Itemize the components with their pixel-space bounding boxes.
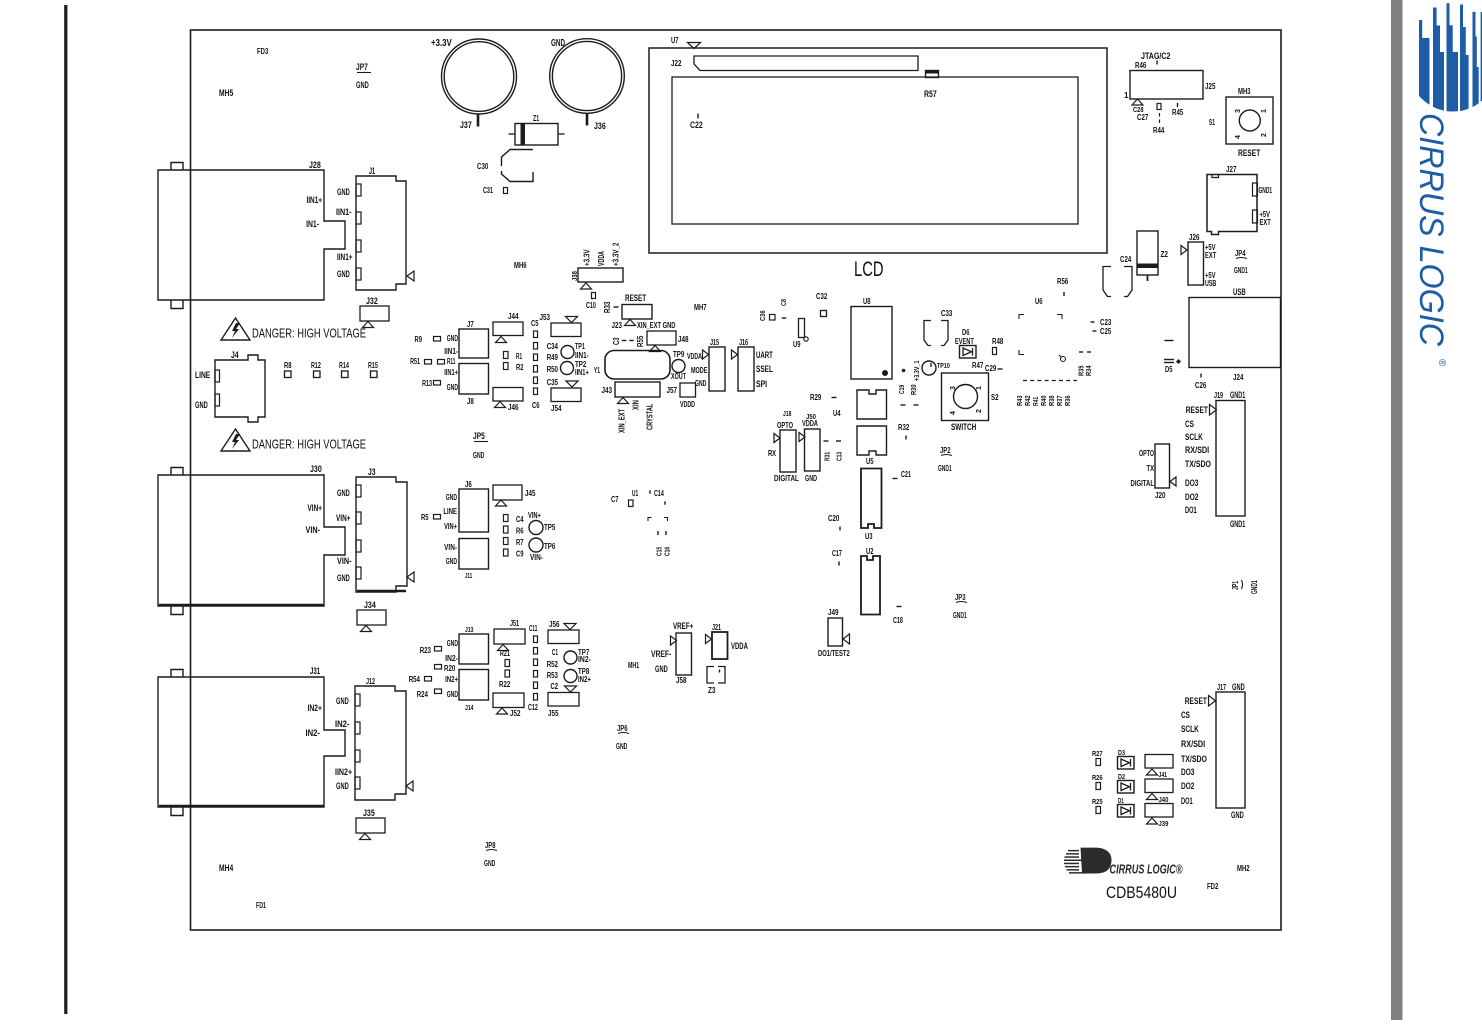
svg-text:C10: C10 xyxy=(586,301,596,310)
svg-text:FD2: FD2 xyxy=(1207,882,1219,891)
svg-text:C22: C22 xyxy=(690,120,703,130)
svg-text:J16: J16 xyxy=(739,338,748,347)
svg-text:TP5: TP5 xyxy=(544,523,556,532)
svg-text:D5: D5 xyxy=(1165,365,1173,374)
diode D5 marks xyxy=(1165,340,1174,342)
svg-text:R29: R29 xyxy=(810,393,822,402)
danger warning triangle 2 xyxy=(221,429,250,451)
pushbutton S1 body xyxy=(1226,97,1273,144)
IC U5 body xyxy=(857,426,887,455)
capacitor C30 outline xyxy=(502,150,534,167)
svg-text:XIN_EXT GND: XIN_EXT GND xyxy=(637,321,676,330)
svg-text:J22: J22 xyxy=(671,59,682,68)
connector J27 outline xyxy=(1207,175,1257,235)
svg-text:CRYSTAL: CRYSTAL xyxy=(646,404,655,430)
transformer J11 body xyxy=(459,539,489,570)
jumper J39 xyxy=(1145,804,1173,818)
svg-text:U7: U7 xyxy=(671,36,679,45)
svg-text:J28: J28 xyxy=(309,160,321,170)
J18 pin1 triangle xyxy=(774,434,780,443)
svg-text:1: 1 xyxy=(1261,109,1268,113)
S2 plunger circle xyxy=(954,385,978,409)
svg-text:SCLK: SCLK xyxy=(1185,432,1203,443)
J12 pin pads xyxy=(355,694,360,706)
J23 pin1 triangle xyxy=(625,320,636,326)
J48 pin1 triangle xyxy=(650,346,661,352)
test point TP2 xyxy=(561,362,574,375)
jumper J52 xyxy=(493,693,524,708)
svg-text:CIRRUS LOGIC®: CIRRUS LOGIC® xyxy=(1110,862,1183,877)
svg-text:FD1: FD1 xyxy=(256,901,266,910)
zener Z3 outline brackets xyxy=(707,667,714,684)
header J38 xyxy=(578,268,623,282)
right gray sidebar xyxy=(1391,0,1403,1020)
J54 pin1 triangle xyxy=(566,381,578,387)
svg-text:J30: J30 xyxy=(310,464,322,474)
svg-text:GND: GND xyxy=(337,187,350,197)
Cirrus Logic logo mark (black) xyxy=(1064,848,1112,874)
svg-text:GND: GND xyxy=(447,639,458,648)
jumper J44 xyxy=(493,322,523,336)
svg-text:J54: J54 xyxy=(551,404,562,413)
svg-text:U2: U2 xyxy=(866,547,874,556)
J52 pin1 triangle xyxy=(497,708,508,714)
test point TP8 xyxy=(564,670,577,683)
J58 pin1 triangle xyxy=(671,636,677,645)
svg-text:IIN1-: IIN1- xyxy=(444,347,458,356)
LED D3 symbol xyxy=(1118,757,1135,770)
svg-text:U6: U6 xyxy=(1035,297,1043,306)
svg-text:J20: J20 xyxy=(1155,491,1166,500)
svg-text:DO3: DO3 xyxy=(1185,478,1198,489)
svg-text:C3: C3 xyxy=(612,337,621,345)
svg-text:R14: R14 xyxy=(339,361,349,370)
R48 pad xyxy=(993,348,997,355)
svg-text:J32: J32 xyxy=(366,296,378,306)
LED D1 symbol xyxy=(1118,805,1135,818)
C15/C16 dashes xyxy=(657,531,659,535)
svg-text:4: 4 xyxy=(950,411,957,415)
svg-text:DO1: DO1 xyxy=(1185,505,1197,516)
svg-text:GND: GND xyxy=(447,334,458,343)
jumper J55 xyxy=(548,693,579,707)
svg-text:C11: C11 xyxy=(529,624,538,633)
svg-text:DIGITAL: DIGITAL xyxy=(774,473,799,483)
svg-text:C36: C36 xyxy=(758,310,767,321)
svg-text:R34: R34 xyxy=(1084,365,1093,376)
svg-text:GND1: GND1 xyxy=(1230,519,1245,529)
svg-text:TX: TX xyxy=(1147,464,1155,473)
svg-text:J40: J40 xyxy=(1159,795,1169,804)
svg-text:R36: R36 xyxy=(1063,395,1072,406)
svg-text:R7: R7 xyxy=(516,538,524,547)
power post J37 ring xyxy=(442,39,517,114)
svg-text:GND: GND xyxy=(1231,810,1244,820)
R44 dashed lead xyxy=(1159,113,1161,126)
svg-text:C29: C29 xyxy=(985,364,997,373)
svg-text:R13: R13 xyxy=(422,379,432,388)
LED D6 symbol xyxy=(960,346,977,359)
svg-text:R50: R50 xyxy=(547,365,559,374)
J49 pin triangle xyxy=(843,634,850,644)
svg-text:GND: GND xyxy=(805,473,817,483)
header J15 xyxy=(709,347,725,391)
svg-text:R12: R12 xyxy=(311,361,321,370)
C7 pad xyxy=(629,500,634,507)
svg-text:C17: C17 xyxy=(832,549,842,558)
svg-text:VDDA: VDDA xyxy=(687,352,702,361)
svg-text:VIN-: VIN- xyxy=(306,525,321,535)
U8 pin1 dot xyxy=(882,370,888,376)
svg-text:R1: R1 xyxy=(516,352,522,361)
svg-text:JP5: JP5 xyxy=(473,431,485,441)
svg-text:CS: CS xyxy=(1185,419,1194,430)
J35 pin1 triangle xyxy=(360,834,371,840)
svg-text:DANGER: HIGH VOLTAGE: DANGER: HIGH VOLTAGE xyxy=(252,438,366,452)
svg-text:C14: C14 xyxy=(654,489,664,498)
J20 pin triangle xyxy=(1170,477,1176,486)
svg-text:C34: C34 xyxy=(547,342,559,351)
svg-text:MH3: MH3 xyxy=(1238,87,1251,96)
svg-text:J11: J11 xyxy=(465,571,472,580)
test point TP1 xyxy=(561,346,574,359)
transformer J8 body xyxy=(459,364,489,395)
connector J12 outline xyxy=(355,686,406,800)
J3 pin1 triangle xyxy=(407,572,414,582)
svg-text:J44: J44 xyxy=(508,312,519,321)
svg-text:C25: C25 xyxy=(1100,327,1112,336)
svg-text:S1: S1 xyxy=(1209,118,1215,127)
J26 pin1 triangle xyxy=(1181,246,1187,255)
svg-text:J53: J53 xyxy=(540,313,551,322)
power post J36 ring xyxy=(550,39,625,114)
svg-text:SSEL: SSEL xyxy=(756,364,773,374)
svg-text:IN2+: IN2+ xyxy=(578,675,591,684)
svg-text:2: 2 xyxy=(976,409,983,413)
IC U3 body xyxy=(861,469,882,529)
svg-text:GND1: GND1 xyxy=(953,611,967,620)
J39 pin1 triangle xyxy=(1147,818,1158,824)
svg-text:IN1-: IN1- xyxy=(306,219,319,229)
R21 pads xyxy=(505,660,510,667)
svg-text:IIN1+: IIN1+ xyxy=(307,195,323,205)
svg-text:CS: CS xyxy=(1181,710,1190,721)
svg-text:TP10: TP10 xyxy=(937,361,950,370)
svg-text:C26: C26 xyxy=(1195,381,1207,390)
jumper J53 xyxy=(551,323,581,337)
jumper J54 xyxy=(551,388,581,402)
svg-text:GND: GND xyxy=(655,664,668,674)
svg-text:VIN-: VIN- xyxy=(444,543,457,552)
svg-text:GND: GND xyxy=(473,451,484,460)
transformer J13 body xyxy=(459,634,489,664)
capacitor chain C11-C12 pads xyxy=(534,636,538,643)
connector J1 outline xyxy=(356,176,406,290)
J12 pin1 triangle xyxy=(406,781,413,791)
J46 pin1 triangle xyxy=(495,402,506,408)
header J43 xyxy=(615,382,660,397)
svg-text:XIN_EXT: XIN_EXT xyxy=(618,409,627,433)
IC U2 body xyxy=(861,556,880,615)
svg-text:C24: C24 xyxy=(1120,255,1132,264)
J3 bottom heavy edge xyxy=(357,590,406,592)
transformer J6 body xyxy=(459,489,489,532)
svg-text:R9: R9 xyxy=(415,335,423,344)
danger warning triangle 1 xyxy=(221,318,250,340)
svg-text:MH4: MH4 xyxy=(219,863,233,873)
svg-text:J51: J51 xyxy=(510,619,519,628)
svg-text:R27: R27 xyxy=(1092,749,1103,758)
svg-text:VIN-: VIN- xyxy=(337,556,352,566)
svg-text:GND: GND xyxy=(447,383,458,392)
svg-text:J4: J4 xyxy=(231,350,239,360)
svg-text:XOUT: XOUT xyxy=(671,372,686,381)
jumper J40 xyxy=(1145,779,1173,793)
svg-text:CIRRUS LOGIC: CIRRUS LOGIC xyxy=(1412,113,1450,346)
J50 pin1 triangle xyxy=(799,433,805,442)
svg-text:R21: R21 xyxy=(500,649,510,658)
Z2 cathode band xyxy=(1137,264,1158,269)
S1 plunger circle xyxy=(1239,110,1260,131)
via dot xyxy=(902,369,906,373)
J45 pin1 triangle xyxy=(496,500,507,506)
header J17 outline xyxy=(1216,692,1245,808)
USB connector J24 outline xyxy=(1189,298,1281,368)
connector J18 xyxy=(780,430,796,472)
svg-text:C5: C5 xyxy=(531,319,539,328)
svg-text:J52: J52 xyxy=(510,709,521,718)
capacitor C9 xyxy=(504,549,509,556)
J4 pin pads xyxy=(215,370,220,382)
svg-text:TP9: TP9 xyxy=(673,350,685,359)
svg-text:C27: C27 xyxy=(1137,113,1149,122)
J16 pin1 triangle xyxy=(732,350,738,359)
svg-text:OPTO: OPTO xyxy=(1139,449,1154,458)
svg-text:2: 2 xyxy=(1261,133,1268,137)
svg-text:J43: J43 xyxy=(602,386,613,395)
svg-text:R32: R32 xyxy=(898,423,910,432)
svg-text:SPI: SPI xyxy=(756,379,767,389)
svg-text:C31: C31 xyxy=(483,186,493,195)
svg-text:C20: C20 xyxy=(828,514,840,523)
svg-text:MH6: MH6 xyxy=(514,261,527,270)
J34 pin1 triangle xyxy=(361,626,372,632)
jumper J35 xyxy=(356,818,385,833)
svg-text:USB: USB xyxy=(1233,287,1246,297)
board outline xyxy=(191,30,1282,930)
header J58 xyxy=(676,633,692,675)
svg-text:U3: U3 xyxy=(865,532,873,541)
svg-text:D1: D1 xyxy=(1118,796,1124,805)
svg-text:IN2-: IN2- xyxy=(578,655,591,664)
svg-text:JP8: JP8 xyxy=(485,841,496,850)
J1 pin1 triangle xyxy=(407,271,414,281)
svg-text:FD3: FD3 xyxy=(257,47,269,56)
capacitor chain C5-C6 pads xyxy=(534,331,538,338)
left page border line xyxy=(64,5,67,1014)
svg-text:4: 4 xyxy=(1235,135,1242,139)
svg-text:GND: GND xyxy=(1232,682,1245,692)
svg-text:J17: J17 xyxy=(1217,683,1226,692)
svg-text:1: 1 xyxy=(1124,91,1129,100)
svg-text:C9: C9 xyxy=(516,550,524,559)
svg-text:GND1: GND1 xyxy=(1250,580,1259,594)
svg-text:C13: C13 xyxy=(835,452,844,461)
jumper J56 xyxy=(548,630,579,644)
svg-text:R11: R11 xyxy=(447,357,456,366)
LED D2 symbol xyxy=(1118,781,1135,794)
svg-text:J8: J8 xyxy=(467,397,474,406)
svg-text:R22: R22 xyxy=(499,680,511,689)
svg-text:MH1: MH1 xyxy=(628,661,640,670)
svg-text:OPTO: OPTO xyxy=(777,420,793,430)
svg-text:RX/SDI: RX/SDI xyxy=(1185,445,1209,456)
svg-text:J18: J18 xyxy=(783,409,792,418)
svg-text:Z2: Z2 xyxy=(1161,250,1169,259)
svg-text:Z3: Z3 xyxy=(708,686,716,695)
svg-text:U4: U4 xyxy=(833,409,841,418)
J41 pin1 triangle xyxy=(1147,769,1158,775)
zener Z2 body xyxy=(1137,231,1158,275)
transformer J14 body xyxy=(459,670,489,701)
R31/C13 dashes xyxy=(824,440,829,442)
svg-text:IIN2+: IIN2+ xyxy=(335,767,352,777)
C3 dashes xyxy=(622,340,627,342)
reset jumper block xyxy=(622,305,652,320)
svg-text:J45: J45 xyxy=(525,489,536,498)
svg-text:R57: R57 xyxy=(924,89,937,99)
svg-text:J31: J31 xyxy=(310,666,320,676)
svg-text:C12: C12 xyxy=(528,703,538,712)
svg-text:J27: J27 xyxy=(1226,165,1237,174)
LCD module outer outline xyxy=(649,48,1107,253)
svg-text:C21: C21 xyxy=(901,470,911,479)
svg-text:LCD: LCD xyxy=(854,258,884,281)
svg-text:C32: C32 xyxy=(816,292,828,301)
svg-text:C6: C6 xyxy=(532,401,540,410)
J37 pin lead xyxy=(477,114,480,127)
J56 pin1 triangle xyxy=(564,624,576,630)
svg-text:R48: R48 xyxy=(992,337,1004,346)
svg-text:J14: J14 xyxy=(465,703,474,712)
R30 dashes xyxy=(901,404,906,406)
svg-text:C19: C19 xyxy=(897,385,906,394)
svg-text:J35: J35 xyxy=(363,808,375,818)
svg-text:C7: C7 xyxy=(611,495,619,504)
svg-text:U8: U8 xyxy=(863,297,871,306)
header J19 outline xyxy=(1216,401,1245,517)
svg-text:+3.3V: +3.3V xyxy=(583,249,592,266)
connector J21 xyxy=(712,632,728,659)
svg-text:JP2: JP2 xyxy=(940,446,951,455)
svg-text:R49: R49 xyxy=(547,353,559,362)
U9 pin dot xyxy=(804,337,808,341)
svg-text:S2: S2 xyxy=(991,393,999,402)
svg-text:IIN1-: IIN1- xyxy=(336,207,352,217)
C29 dash xyxy=(998,368,1003,370)
svg-text:VDDA: VDDA xyxy=(802,418,818,428)
svg-text:MODE: MODE xyxy=(691,366,708,375)
jumper J46 xyxy=(493,388,523,402)
resistor R2 xyxy=(504,363,509,370)
svg-text:SWITCH: SWITCH xyxy=(951,422,976,432)
svg-text:DO2: DO2 xyxy=(1185,492,1198,503)
connector J3 outline xyxy=(356,477,407,592)
svg-text:GND1: GND1 xyxy=(1234,266,1248,275)
svg-text:DANGER: HIGH VOLTAGE: DANGER: HIGH VOLTAGE xyxy=(252,327,366,341)
J30 bottom heavy edge xyxy=(159,604,324,606)
svg-text:J25: J25 xyxy=(1205,82,1216,91)
svg-text:R51: R51 xyxy=(410,357,420,366)
svg-text:J57: J57 xyxy=(667,386,678,395)
svg-text:C1: C1 xyxy=(552,648,558,657)
svg-text:C2: C2 xyxy=(551,682,559,691)
svg-text:JP4: JP4 xyxy=(1235,249,1246,258)
svg-text:JP6: JP6 xyxy=(617,724,628,733)
svg-text:R33: R33 xyxy=(603,301,612,313)
svg-text:EVENT: EVENT xyxy=(955,337,974,346)
svg-text:RESET: RESET xyxy=(1186,405,1208,416)
J40 pin1 triangle xyxy=(1147,794,1158,800)
svg-text:TX/SDO: TX/SDO xyxy=(1185,459,1211,470)
svg-text:RESET: RESET xyxy=(625,293,646,303)
svg-text:R46: R46 xyxy=(1135,61,1147,70)
J15 pin1 triangle xyxy=(703,350,709,359)
connector J30 outline xyxy=(158,475,345,606)
svg-text:R31: R31 xyxy=(823,452,832,461)
resistor R7 xyxy=(504,538,509,545)
J43 pin1 triangle xyxy=(618,398,629,404)
svg-text:VREF+: VREF+ xyxy=(673,621,693,631)
svg-text:GND: GND xyxy=(446,557,457,566)
svg-text:VIN+: VIN+ xyxy=(444,522,457,531)
svg-text:J41: J41 xyxy=(1159,770,1168,779)
svg-text:VDDA: VDDA xyxy=(597,251,606,266)
svg-text:3: 3 xyxy=(1235,109,1242,113)
Z1 leads xyxy=(509,133,516,135)
svg-text:IIN1-: IIN1- xyxy=(575,351,589,360)
J31 bottom heavy edge xyxy=(159,805,324,807)
resistor network dashed line xyxy=(1023,380,1077,382)
svg-text:GND: GND xyxy=(337,573,350,583)
svg-text:J56: J56 xyxy=(549,620,560,629)
Z1 cathode band xyxy=(521,124,526,146)
jumper J57 xyxy=(680,383,696,397)
svg-text:MH2: MH2 xyxy=(1237,864,1250,873)
LCD viewport inner outline xyxy=(672,77,1078,224)
svg-text:XIN: XIN xyxy=(632,400,641,410)
D6 dash xyxy=(930,363,932,367)
svg-text:J36: J36 xyxy=(594,121,606,131)
capacitor C26 xyxy=(1200,374,1202,378)
pushbutton S2 body xyxy=(942,373,989,421)
svg-text:J7: J7 xyxy=(467,320,474,329)
svg-text:J37: J37 xyxy=(460,120,472,130)
svg-text:U9: U9 xyxy=(793,340,801,349)
svg-text:R56: R56 xyxy=(1057,277,1069,286)
J32 pin1 triangle xyxy=(363,322,374,328)
svg-text:IN2-: IN2- xyxy=(335,719,350,729)
test point TP5 xyxy=(529,521,543,535)
svg-text:J23: J23 xyxy=(612,321,623,330)
svg-text:GND: GND xyxy=(195,400,208,410)
connector J26 xyxy=(1188,242,1204,285)
svg-text:R44: R44 xyxy=(1153,126,1165,135)
svg-text:DO2: DO2 xyxy=(1181,781,1194,792)
svg-text:TP6: TP6 xyxy=(544,542,556,551)
svg-text:DO3: DO3 xyxy=(1181,767,1194,778)
svg-text:R6: R6 xyxy=(516,527,524,536)
